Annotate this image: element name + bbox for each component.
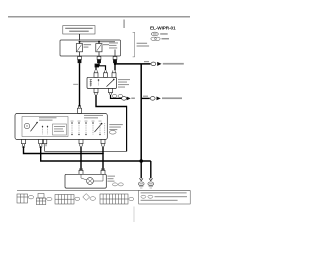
washer motor internal stubs xyxy=(81,174,103,181)
off-page arrow lower-right xyxy=(157,97,161,101)
refer to following note box xyxy=(139,191,191,205)
combination switch label text xyxy=(109,124,123,125)
wiper switch position labels xyxy=(71,120,74,123)
intermittent amp header text xyxy=(39,117,57,118)
fuse block J/B box xyxy=(60,40,121,56)
washer motor pin right xyxy=(101,168,105,174)
node fuse3 tee xyxy=(114,63,116,65)
contact dots row xyxy=(71,122,100,135)
wire bar branch to off-page (lower right) xyxy=(141,97,150,99)
wire fuse3 to horizontal run xyxy=(114,63,116,70)
faint column divider mark xyxy=(133,207,135,223)
intermittent amp inner box xyxy=(22,117,68,137)
note connector badge F1 xyxy=(141,195,146,198)
washer switch lever xyxy=(95,124,102,132)
ground terminal 1 xyxy=(139,178,143,180)
wire motor low vertical drop xyxy=(126,106,128,152)
wiper switch lever left xyxy=(31,123,38,132)
wire fuse1 to combination switch xyxy=(79,63,81,106)
connector ring lower-right off-page xyxy=(150,97,155,101)
fuse F2 xyxy=(96,42,102,56)
node bus-fuse1 xyxy=(79,41,81,43)
off-page arrow lower-left xyxy=(127,97,131,101)
wiper motor internal resistor xyxy=(90,80,92,87)
wire motor low to combination switch (thick top) xyxy=(96,95,127,107)
wire bar from upper run down to ground run xyxy=(140,64,142,161)
svg-text:EL-WIPR-01: EL-WIPR-01 xyxy=(150,26,176,31)
node bus-fuse2 xyxy=(98,41,100,43)
wire ignition to fuse block xyxy=(79,34,81,42)
wiper motor pin 4 (bottom left) xyxy=(94,89,98,95)
wire thick run to off-page right (upper) xyxy=(114,63,150,65)
wiper motor label text xyxy=(118,79,130,80)
wire junction branch left pin xyxy=(96,66,106,71)
connector view 5 xyxy=(100,194,128,204)
wiper amp sub-box xyxy=(53,124,67,135)
wiper switch contact columns xyxy=(72,123,105,135)
combination switch connector badge M xyxy=(109,131,116,135)
wiper motor pin 1 (top left) xyxy=(94,71,98,78)
wire color label B/L xyxy=(144,61,149,62)
figure number mark xyxy=(123,20,126,29)
connector pin fuse drop 2 xyxy=(97,57,101,64)
fuse block label text xyxy=(109,42,118,43)
combination switch pin T5 xyxy=(101,140,105,147)
bus wire inside fuse block xyxy=(80,41,116,43)
off-page reference text upper xyxy=(163,63,184,65)
connector pin fuse drop 3 xyxy=(113,57,117,64)
wiper motor pin 5 (bottom right) xyxy=(109,89,113,95)
wiper amp text xyxy=(54,126,65,127)
top rule xyxy=(8,16,190,18)
wire to combination switch pin 3 xyxy=(44,146,46,151)
wiper motor switch lever xyxy=(107,80,114,87)
connector view 4 badge xyxy=(90,197,96,201)
ground symbol 2 xyxy=(149,187,153,188)
connector pin combination switch top xyxy=(78,105,82,113)
wiper motor internal contact dot xyxy=(98,79,100,81)
connector ring lower-left off-page xyxy=(122,97,127,101)
wire T2 to ground run xyxy=(41,146,151,161)
wire motor pin5 to off-page (lower left group) xyxy=(111,95,122,99)
connector view 3 badge xyxy=(75,197,80,200)
combination switch pin T1 xyxy=(22,140,26,149)
fuse F1 value label xyxy=(84,44,92,45)
connector pin fuse drop 1 xyxy=(78,57,82,64)
internal contact dashes left xyxy=(42,127,44,135)
washer motor label text xyxy=(108,176,116,177)
intermittent variable resistor lamp circle xyxy=(24,123,29,128)
off-page reference text lower-left xyxy=(131,98,135,100)
washer motor pin left xyxy=(79,168,83,174)
wire ground drop 1 xyxy=(140,161,142,178)
legend type 2 oval symbol xyxy=(151,37,160,40)
connector ring upper off-page xyxy=(151,62,156,66)
wire ground drop 2 xyxy=(150,161,152,178)
wiper motor box xyxy=(87,77,117,88)
wire T1 to washer left feed xyxy=(24,146,104,170)
connector view 4 xyxy=(83,194,90,201)
refer to EL-POWER bracket xyxy=(133,32,135,57)
wire color label L/R xyxy=(143,96,148,97)
ground symbol 1 xyxy=(139,187,143,188)
washer motor box xyxy=(65,174,106,188)
wire T5 to washer motor right xyxy=(102,146,104,154)
connector view 2 badge xyxy=(47,197,52,200)
off-page arrow upper xyxy=(157,62,161,66)
washer motor symbol xyxy=(87,178,94,185)
wire fuse3 exit xyxy=(114,50,116,57)
washer motor connector badges xyxy=(113,183,118,186)
wiper motor pin 3 (top right) xyxy=(112,71,116,78)
splice oval b xyxy=(118,95,123,98)
node wiper motor feed junction xyxy=(95,64,99,68)
combination switch pin T3 xyxy=(43,140,46,147)
wire T4 to washer motor left xyxy=(80,146,82,170)
wire fuse2 to wiper motor junction xyxy=(98,63,100,66)
connector view 1 xyxy=(17,194,28,203)
refer to EL-POWER text xyxy=(137,43,148,44)
combination switch pin T2 xyxy=(39,140,43,149)
separator line above connector views xyxy=(17,190,190,192)
connector view 5 badge xyxy=(129,197,134,200)
wire color label G/B xyxy=(73,84,78,85)
combination switch box xyxy=(15,114,107,140)
combination switch pin T4 xyxy=(79,140,83,147)
node ground run junction xyxy=(139,159,143,163)
legend type 1 oval symbol xyxy=(151,32,158,36)
wiper motor internal dashed link xyxy=(98,81,100,86)
note connector badge F2 xyxy=(148,195,153,198)
ignition switch label box xyxy=(63,26,95,34)
washer switch header text xyxy=(84,115,103,116)
connector view 1 badge xyxy=(28,196,33,199)
fuse F1 xyxy=(76,42,82,56)
ground terminal 2 xyxy=(149,178,153,180)
wiper motor pin 2 (top middle) xyxy=(104,71,108,78)
connector view 2 xyxy=(36,194,46,205)
fuse F2 value label xyxy=(103,44,109,45)
splice oval a xyxy=(112,95,117,98)
off-page reference text lower-right xyxy=(162,97,182,99)
connector view 3 xyxy=(55,195,74,205)
